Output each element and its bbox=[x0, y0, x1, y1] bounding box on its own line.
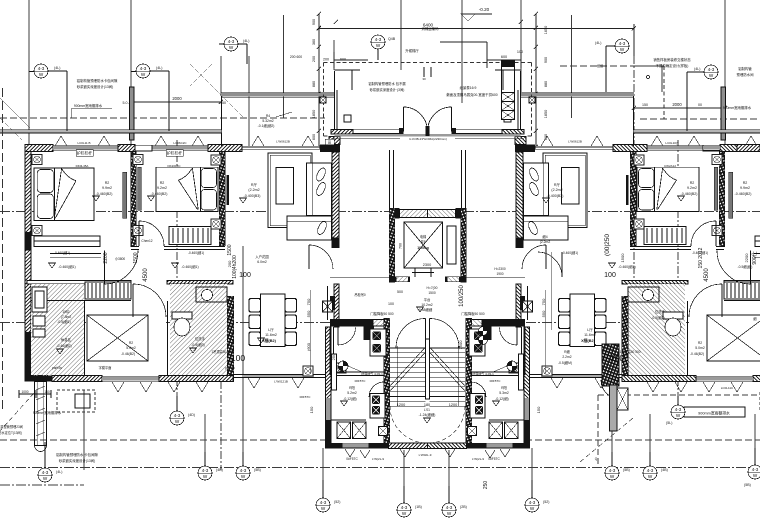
svg-text:1500: 1500 bbox=[620, 253, 625, 263]
svg-text:550: 550 bbox=[541, 310, 546, 317]
svg-text:(5B): (5B) bbox=[744, 483, 751, 487]
column symbol g bbox=[211, 219, 221, 229]
dashed diagonal bottom left bbox=[0, 393, 34, 431]
svg-text:2000: 2000 bbox=[172, 96, 182, 101]
eave dashed bottom right bbox=[525, 439, 760, 441]
wall pier between windows bbox=[118, 145, 135, 152]
svg-text:L厅: L厅 bbox=[268, 327, 274, 332]
svg-text:细细: 细细 bbox=[597, 63, 603, 68]
bed2 south wall bbox=[131, 247, 225, 250]
svg-text:DK0L45A: DK0L45A bbox=[76, 164, 89, 168]
svg-text:休息区: 休息区 bbox=[61, 337, 72, 342]
axis line vertical V bbox=[754, 414, 756, 465]
entrance center tick bbox=[423, 67, 425, 77]
bottom sill marks bbox=[112, 378, 304, 392]
leader 900mm note bbox=[71, 109, 112, 119]
svg-text:1200: 1200 bbox=[397, 403, 405, 407]
svg-text:X细(B2): X细(B2) bbox=[581, 338, 595, 343]
axis bubble A3 bbox=[219, 37, 249, 64]
svg-text:护栏栏杆: 护栏栏杆 bbox=[77, 151, 92, 156]
svg-text:-0.1细(细2): -0.1细(细2) bbox=[258, 123, 275, 128]
axis bubble A4 bbox=[371, 35, 396, 60]
bed1 hall door arc bbox=[105, 251, 139, 285]
axis bubble B3 bbox=[198, 452, 223, 480]
svg-text:-0.46(细2): -0.46(细2) bbox=[56, 343, 71, 348]
bed2 door arc bbox=[139, 221, 164, 246]
svg-text:U-KOB-23*HOMA(2230mm): U-KOB-23*HOMA(2230mm) bbox=[409, 137, 447, 141]
svg-text:(1B): (1B) bbox=[415, 505, 422, 509]
svg-text:(7.3m2: (7.3m2 bbox=[61, 315, 72, 319]
svg-text:(4D): (4D) bbox=[188, 413, 195, 417]
dim 2000 left bbox=[131, 101, 221, 103]
shaft thin wall above elevator bbox=[390, 150, 394, 208]
right suite door arc bbox=[601, 380, 620, 399]
stair door arc bbox=[396, 319, 426, 349]
top right corner window bbox=[703, 145, 720, 150]
suite top wall bbox=[27, 281, 131, 285]
axis horizontal bottom bbox=[0, 467, 760, 469]
svg-text:9.9m2: 9.9m2 bbox=[102, 186, 112, 190]
dashed vertical right bbox=[663, 66, 665, 119]
svg-text:(52): (52) bbox=[334, 500, 340, 504]
svg-text:2000: 2000 bbox=[672, 102, 682, 107]
axis bubble B5 bbox=[316, 480, 340, 512]
svg-text:(2B): (2B) bbox=[460, 505, 467, 509]
svg-text:LC0L11C: LC0L11C bbox=[721, 386, 734, 390]
svg-text:-0.46(B2): -0.46(B2) bbox=[121, 352, 135, 356]
svg-text:(4B): (4B) bbox=[661, 468, 668, 472]
corridor edge line bbox=[330, 277, 389, 279]
svg-text:100: 100 bbox=[604, 272, 616, 279]
svg-text:-0.48细细: -0.48细细 bbox=[418, 307, 433, 312]
svg-text:砂浆嵌实深度设计(13间): 砂浆嵌实深度设计(13间) bbox=[77, 84, 114, 89]
svg-text:L'01: L'01 bbox=[424, 408, 430, 412]
svg-text:R4: R4 bbox=[266, 114, 270, 118]
stair break line bbox=[390, 347, 426, 391]
balcony side line bbox=[221, 96, 223, 146]
svg-text:200: 200 bbox=[312, 56, 316, 62]
bottom block west wall bbox=[326, 327, 332, 448]
overhang dashed top left bbox=[0, 117, 325, 119]
svg-text:字模平面: 字模平面 bbox=[99, 365, 112, 370]
svg-text:4500: 4500 bbox=[143, 268, 149, 282]
svg-text:11.6m2: 11.6m2 bbox=[584, 333, 596, 337]
axis bubble B7 bbox=[442, 486, 467, 517]
dim 600 right center bbox=[487, 59, 521, 61]
right corner dashed diagonal bbox=[580, 418, 633, 462]
svg-text:150: 150 bbox=[642, 103, 648, 107]
svg-text:900: 900 bbox=[312, 19, 316, 25]
svg-text:-1.24(细细): -1.24(细细) bbox=[419, 412, 436, 417]
column symbol d bbox=[133, 226, 143, 236]
svg-text:2300: 2300 bbox=[423, 263, 431, 267]
svg-text:(4L): (4L) bbox=[595, 41, 601, 45]
bottom room door arc bbox=[369, 382, 384, 397]
desk bed1 bbox=[34, 236, 100, 247]
entrance south wall bbox=[353, 130, 399, 134]
stair mid wall bbox=[426, 339, 430, 399]
svg-text:100|4h200: 100|4h200 bbox=[232, 255, 238, 279]
bottom sill marks center block bbox=[345, 449, 410, 458]
svg-text:R2: R2 bbox=[690, 181, 695, 185]
svg-text:L厅: L厅 bbox=[587, 327, 593, 332]
axis bubble B11 bbox=[666, 396, 685, 425]
svg-text:parK9c: parK9c bbox=[52, 366, 63, 370]
svg-text:150: 150 bbox=[220, 101, 226, 105]
divider wall bed1-bed2 bbox=[131, 152, 137, 247]
top wall bedrooms: corner pier bbox=[25, 145, 53, 152]
svg-text:11.6m2: 11.6m2 bbox=[265, 333, 277, 337]
svg-text:200: 200 bbox=[323, 58, 329, 62]
svg-text:100: 100 bbox=[610, 353, 624, 363]
svg-text:R阳: R阳 bbox=[501, 385, 507, 390]
svg-text:(00|250: (00|250 bbox=[604, 234, 611, 256]
eave dashed bottom left bbox=[0, 439, 330, 441]
dining dim line bbox=[309, 290, 311, 374]
elevator guide rail bbox=[447, 226, 456, 264]
svg-text:L'W02L-9: L'W02L-9 bbox=[419, 453, 432, 457]
svg-text:2200: 2200 bbox=[103, 252, 109, 263]
svg-text:7500: 7500 bbox=[458, 340, 463, 350]
svg-text:-0.12(细): -0.12(细) bbox=[343, 396, 356, 401]
leader arrow balcony bbox=[276, 112, 292, 117]
column symbol b bbox=[32, 226, 42, 236]
entrance south wall hatch pier bbox=[331, 130, 353, 135]
roof step top right bbox=[634, 66, 662, 92]
elevator car bbox=[404, 222, 443, 268]
sofa group bbox=[268, 153, 332, 240]
svg-text:900mm宽雨棚排水: 900mm宽雨棚排水 bbox=[74, 103, 103, 108]
bed with X (storage) bbox=[87, 315, 148, 361]
svg-text:1900: 1900 bbox=[496, 272, 503, 276]
svg-text:6.0m2: 6.0m2 bbox=[257, 260, 267, 264]
axis line vertical U bbox=[649, 414, 651, 468]
svg-text:9.9m2: 9.9m2 bbox=[740, 186, 750, 190]
hall east line bbox=[327, 286, 329, 320]
svg-text:R阳: R阳 bbox=[349, 385, 355, 390]
cabinet below bbox=[50, 254, 101, 258]
svg-text:100: 100 bbox=[239, 272, 251, 279]
svg-text:100: 100 bbox=[517, 50, 523, 54]
svg-text:L'W0612B: L'W0612B bbox=[276, 140, 290, 144]
axis line vertical E bbox=[176, 140, 178, 414]
duct hatch marks bbox=[36, 386, 45, 436]
dining table bbox=[261, 294, 286, 347]
balcony rail bbox=[221, 92, 334, 97]
living top window bbox=[242, 146, 320, 149]
dim ticks chains bbox=[19, 12, 727, 398]
bed 1 bbox=[34, 168, 94, 221]
stair up arrow line bbox=[396, 346, 398, 406]
axis bubble A6 bbox=[687, 65, 718, 131]
overhang dashed right upper bbox=[560, 65, 664, 67]
svg-text:-0.460(B2): -0.460(B2) bbox=[96, 192, 113, 196]
svg-text:门槛降板50 500: 门槛降板50 500 bbox=[461, 311, 484, 316]
svg-text:150: 150 bbox=[536, 406, 541, 413]
svg-text:-0.460(细1): -0.460(细1) bbox=[58, 264, 75, 269]
svg-text:(2.2m2: (2.2m2 bbox=[551, 188, 562, 192]
svg-text:H=7(00: H=7(00 bbox=[427, 286, 438, 290]
svg-text:500: 500 bbox=[397, 290, 403, 294]
bottom wall hatch seg bbox=[52, 376, 102, 382]
svg-text:位洗手: 位洗手 bbox=[655, 309, 666, 314]
svg-text:L'W(2L-9: L'W(2L-9 bbox=[372, 457, 384, 461]
svg-text:250: 250 bbox=[331, 353, 336, 360]
wardrobe comb top bbox=[85, 282, 131, 299]
axis line vertical I bbox=[520, 0, 522, 92]
hall door arc bbox=[309, 245, 333, 269]
room top wall second line bbox=[331, 371, 384, 373]
fridge bbox=[32, 287, 47, 312]
svg-text:R2: R2 bbox=[129, 341, 133, 345]
svg-text:砂浆嵌实深度设计(13间): 砂浆嵌实深度设计(13间) bbox=[59, 458, 96, 463]
axis line vertical J bbox=[633, 56, 635, 320]
toilet bbox=[172, 312, 192, 336]
svg-text:位洗手: 位洗手 bbox=[195, 336, 206, 341]
entrance top wall seg bbox=[335, 70, 361, 90]
svg-text:0#F5TC: 0#F5TC bbox=[488, 457, 500, 461]
svg-text:150: 150 bbox=[309, 406, 314, 413]
svg-text:-0.460(细1): -0.460(细1) bbox=[54, 250, 70, 255]
door leaf left bbox=[404, 107, 428, 132]
svg-text:-0.460(细1): -0.460(细1) bbox=[562, 250, 578, 255]
dim 600 left center bbox=[334, 59, 368, 61]
axis horizontal mid bedrooms bbox=[0, 211, 760, 213]
left outer wall upper bbox=[25, 152, 31, 233]
svg-text:2(00: 2(00 bbox=[461, 242, 465, 249]
svg-text:田: 田 bbox=[328, 141, 331, 145]
boxed note 900mm right bbox=[684, 407, 745, 417]
axis bubble B8 bbox=[525, 480, 549, 512]
svg-text:细4: 细4 bbox=[542, 234, 547, 239]
heavy wall hall-stairs bbox=[330, 319, 373, 327]
svg-text:(5L): (5L) bbox=[666, 421, 672, 425]
svg-text:9.2m2: 9.2m2 bbox=[687, 186, 697, 190]
axis bubble B10 bbox=[643, 452, 668, 480]
svg-text:600: 600 bbox=[501, 55, 507, 59]
axis bubble A1 bbox=[29, 64, 67, 131]
svg-text:100: 100 bbox=[231, 353, 245, 363]
svg-text:700: 700 bbox=[399, 243, 403, 249]
svg-text:550: 550 bbox=[306, 310, 311, 317]
axis line vertical F bbox=[333, 40, 335, 70]
dim chain right of center bbox=[535, 14, 537, 147]
axis line vertical C bbox=[220, 56, 222, 96]
svg-text:CW2A12: CW2A12 bbox=[664, 164, 676, 168]
axis line vertical B bbox=[130, 0, 132, 148]
svg-text:2200: 2200 bbox=[744, 253, 749, 263]
small shaft box bbox=[320, 97, 326, 103]
left wall black segment bbox=[25, 232, 32, 250]
svg-text:(4L): (4L) bbox=[243, 39, 249, 43]
svg-text:-0.5(细3): -0.5(细3) bbox=[651, 315, 664, 320]
svg-text:-0.460(细1): -0.460(细1) bbox=[618, 264, 635, 269]
bottom block south window bbox=[343, 443, 369, 448]
axis line vertical O bbox=[242, 246, 244, 468]
svg-text:L'W(2L-9: L'W(2L-9 bbox=[472, 457, 484, 461]
axis line vertical H bbox=[461, 0, 463, 103]
entrance sill gray band bbox=[335, 134, 521, 137]
axis line vertical G bbox=[400, 0, 402, 70]
door post bbox=[399, 128, 404, 135]
left duct chase bbox=[35, 382, 47, 452]
svg-text:载8: 载8 bbox=[421, 239, 426, 244]
svg-text:升候梯厅: 升候梯厅 bbox=[405, 48, 419, 53]
left outer wall mid bbox=[25, 250, 31, 341]
axis bubble B9 bbox=[605, 452, 630, 480]
svg-text:750: 750 bbox=[306, 298, 311, 305]
chute duct bbox=[502, 67, 515, 93]
svg-text:LC0L11 B: LC0L11 B bbox=[77, 141, 90, 145]
svg-text:增强排气 4-03-1: 增强排气 4-03-1 bbox=[472, 371, 494, 376]
svg-text:5.0m2: 5.0m2 bbox=[126, 346, 136, 350]
dim 2000 right bbox=[634, 107, 725, 109]
svg-text:200 600: 200 600 bbox=[290, 55, 302, 59]
left bath hatch floor bbox=[31, 284, 84, 375]
svg-text:小3800: 小3800 bbox=[115, 256, 126, 261]
svg-text:0#F5TC: 0#F5TC bbox=[355, 379, 367, 383]
svg-text:00: 00 bbox=[698, 103, 702, 107]
wall bed2-living bbox=[219, 152, 225, 246]
svg-text:250: 250 bbox=[483, 481, 489, 490]
svg-text:5.0: 5.0 bbox=[123, 101, 128, 105]
axis bubble B4 bbox=[236, 452, 261, 480]
window LC0L11B bbox=[53, 145, 118, 150]
svg-text:不提前确定设计(样板): 不提前确定设计(样板) bbox=[656, 63, 689, 68]
stair corner duct black bbox=[364, 327, 375, 341]
svg-text:敷面及顶棚马赛克00-宽度干拱600: 敷面及顶棚马赛克00-宽度干拱600 bbox=[446, 92, 497, 97]
hall west black blob bbox=[330, 296, 335, 310]
right duct chase gray band bbox=[610, 385, 618, 431]
svg-text:2.2m2: 2.2m2 bbox=[562, 355, 571, 359]
svg-text:-0.460(B2): -0.460(B2) bbox=[151, 192, 168, 196]
axis bubble B1 bbox=[38, 442, 62, 482]
svg-text:1000kg: 1000kg bbox=[417, 246, 429, 250]
dim line 6400 bbox=[319, 28, 634, 30]
axis line vertical T bbox=[611, 414, 613, 468]
svg-text:R厅: R厅 bbox=[251, 182, 258, 187]
right duct box bbox=[617, 388, 628, 410]
wardrobe bed2 comb bbox=[169, 227, 211, 245]
svg-text:-0.12(细): -0.12(细) bbox=[495, 396, 508, 401]
basin counter bbox=[196, 287, 227, 302]
riser shaft blob bbox=[32, 336, 48, 378]
living east wall black foot bbox=[332, 238, 340, 248]
chairs left col bbox=[249, 299, 297, 346]
svg-text:吊柜吊0: 吊柜吊0 bbox=[354, 292, 366, 297]
roof diag top left corner bbox=[0, 118, 22, 140]
column symbol c bbox=[133, 155, 143, 165]
axis horizontal bottom left stub bbox=[0, 484, 84, 486]
svg-text:5.2m2: 5.2m2 bbox=[347, 391, 357, 395]
svg-text:750: 750 bbox=[541, 298, 546, 305]
upper cabinet with ducts bbox=[370, 329, 386, 356]
overhang dashed bottom right block bbox=[598, 394, 760, 396]
shaft xbox near dining bbox=[323, 301, 333, 312]
bottom block west window bbox=[326, 398, 331, 428]
svg-text:铝制构管: 铝制构管 bbox=[738, 66, 752, 71]
chute shaft boxes bbox=[502, 93, 515, 120]
svg-text:R2: R2 bbox=[160, 181, 165, 185]
svg-text:(4L): (4L) bbox=[156, 66, 162, 70]
elevator car door bbox=[412, 268, 434, 277]
right bath hatch floor bbox=[170, 284, 227, 375]
svg-text:Q4B: Q4B bbox=[388, 37, 396, 41]
svg-text:1500: 1500 bbox=[227, 244, 233, 255]
svg-text:LC06C2C: LC06C2C bbox=[173, 141, 187, 145]
svg-text:(52): (52) bbox=[543, 500, 549, 504]
exhaust fans right hall bbox=[479, 327, 488, 345]
bed 2 bbox=[156, 167, 218, 211]
eave band left wing bbox=[0, 129, 222, 133]
stair west wall bbox=[384, 318, 390, 445]
svg-text:880: 880 bbox=[312, 81, 316, 87]
svg-text:平台: 平台 bbox=[424, 297, 431, 302]
dim chain left of center bbox=[318, 14, 320, 147]
svg-text:工易塑管预埋23间: 工易塑管预埋23间 bbox=[0, 424, 23, 429]
axis bubble B6 bbox=[397, 486, 422, 517]
svg-text:-0.20: -0.20 bbox=[479, 7, 490, 12]
garbage chute black header bbox=[501, 60, 515, 67]
header box bed2 bbox=[166, 150, 183, 157]
svg-text:1850: 1850 bbox=[312, 110, 316, 118]
svg-text:9.2m2: 9.2m2 bbox=[157, 186, 167, 190]
svg-text:(2.2m2: (2.2m2 bbox=[248, 188, 259, 192]
bath partition wall A bbox=[84, 300, 86, 375]
svg-text:1650: 1650 bbox=[544, 26, 548, 34]
left room north door arc bbox=[338, 328, 356, 346]
svg-text:入户花园: 入户花园 bbox=[255, 254, 269, 259]
bottom wall west black bbox=[25, 376, 53, 382]
entry step line bbox=[331, 138, 400, 140]
bottom wall hatch seg2 bbox=[159, 376, 233, 382]
svg-text:-0.5(细1): -0.5(细1) bbox=[57, 319, 70, 324]
middle room floor bbox=[86, 302, 166, 374]
axis horizontal dining right bbox=[510, 322, 760, 324]
svg-text:100/250: 100/250 bbox=[459, 285, 465, 307]
svg-text:(5B): (5B) bbox=[254, 468, 261, 472]
svg-text:5.0m2: 5.0m2 bbox=[695, 346, 705, 350]
svg-text:-0.400(B3): -0.400(B3) bbox=[244, 194, 261, 198]
black corner pier near balcony bbox=[320, 145, 340, 153]
svg-text:1200: 1200 bbox=[449, 403, 457, 407]
svg-text:Chen12: Chen12 bbox=[141, 239, 152, 243]
svg-text:0#F5TC: 0#F5TC bbox=[346, 457, 358, 461]
wash basin bbox=[202, 290, 213, 301]
svg-text:消梯运输码: 消梯运输码 bbox=[422, 26, 440, 31]
window LC0L11C bbox=[102, 376, 159, 381]
axis line vertical M bbox=[83, 390, 85, 470]
pilaster hatch below wall bbox=[329, 137, 340, 145]
svg-text:销售样板房装修交楼状态: 销售样板房装修交楼状态 bbox=[653, 57, 691, 62]
axis line vertical R bbox=[448, 450, 450, 505]
axis bubble A2 bbox=[131, 64, 169, 131]
svg-text:-0.460(细1): -0.460(细1) bbox=[188, 250, 204, 255]
wall bath-dining bbox=[227, 296, 234, 382]
svg-text:-0.46(B2): -0.46(B2) bbox=[690, 352, 704, 356]
property dashed line left bbox=[2, 88, 4, 412]
svg-text:900仕: 900仕 bbox=[751, 251, 758, 264]
svg-text:880: 880 bbox=[544, 81, 548, 87]
bath partition horiz bbox=[31, 300, 131, 302]
axis line vertical S bbox=[531, 448, 533, 500]
svg-text:砂浆嵌实深度设计·(3间): 砂浆嵌实深度设计·(3间) bbox=[370, 87, 405, 92]
axis line vertical L bbox=[677, 140, 679, 408]
dining south wall bbox=[233, 375, 330, 378]
axis bubble B12 bbox=[744, 448, 760, 487]
svg-text:防水定位T(13间): 防水定位T(13间) bbox=[0, 430, 22, 435]
svg-text:R细: R细 bbox=[564, 349, 570, 354]
